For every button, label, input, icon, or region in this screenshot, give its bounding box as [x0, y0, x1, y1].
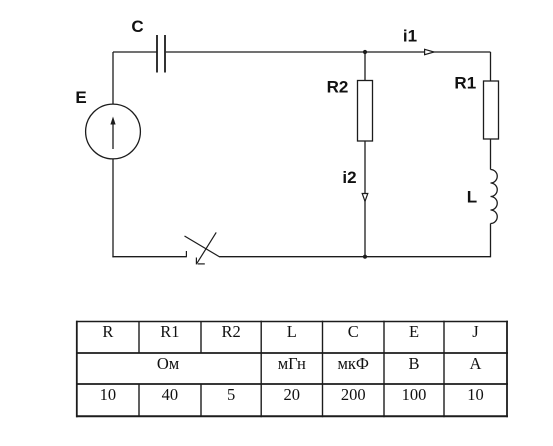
- label i1: [403, 26, 417, 45]
- table header row: R R1 R2 L C E J: [102, 322, 479, 341]
- label i2: [342, 168, 356, 187]
- svg-text:C: C: [348, 322, 359, 341]
- parameter table grid: [76, 321, 508, 418]
- label E: [75, 88, 86, 107]
- svg-text:L: L: [467, 188, 477, 207]
- svg-text:В: В: [408, 354, 419, 373]
- wire: bottom-left horizontal (corner to switch): [112, 256, 186, 258]
- wire: left vertical top (corner to source): [112, 52, 114, 105]
- label C: [131, 17, 143, 36]
- svg-text:L: L: [287, 322, 297, 341]
- label L: [467, 188, 477, 207]
- table values row: 10 40 5 20 200 100 10: [100, 385, 484, 404]
- svg-text:А: А: [470, 354, 482, 373]
- switch SW (closing key): [185, 232, 220, 264]
- svg-text:40: 40: [162, 385, 179, 404]
- node: bottom junction of R2 branch: [363, 255, 367, 259]
- node: top junction of R2 branch: [363, 50, 367, 54]
- table units row: Ом мГн мкФ В А: [157, 354, 482, 373]
- wire: right vertical between R1 and L: [490, 139, 492, 170]
- svg-text:E: E: [409, 322, 419, 341]
- svg-text:Ом: Ом: [157, 354, 180, 373]
- svg-text:200: 200: [341, 385, 366, 404]
- current arrow i2: [362, 194, 368, 202]
- wire: top horizontal (capacitor to top-right corner): [166, 51, 491, 53]
- svg-text:R1: R1: [160, 322, 179, 341]
- svg-text:R1: R1: [454, 74, 476, 93]
- resistor R2: [358, 81, 373, 142]
- svg-text:5: 5: [227, 385, 235, 404]
- svg-text:мкФ: мкФ: [337, 354, 369, 373]
- svg-text:R2: R2: [327, 78, 349, 97]
- wire: left vertical bottom (source to bottom-left corner): [112, 159, 114, 257]
- svg-text:i2: i2: [342, 168, 356, 187]
- label R2: [327, 78, 349, 97]
- wire: R2 branch lower: [364, 141, 366, 257]
- svg-text:10: 10: [100, 385, 117, 404]
- svg-text:10: 10: [467, 385, 484, 404]
- svg-text:20: 20: [284, 385, 301, 404]
- inductor L: [491, 170, 498, 224]
- svg-text:мГн: мГн: [278, 354, 306, 373]
- svg-text:J: J: [472, 322, 479, 341]
- wire: bottom horizontal (switch to bottom-right corner): [220, 256, 491, 258]
- wire: top-left horizontal (node to capacitor): [113, 51, 157, 53]
- wire: right vertical top (corner to R1): [490, 52, 492, 82]
- svg-text:R2: R2: [221, 322, 240, 341]
- current arrow i1: [425, 49, 434, 54]
- source E (current source circle with arrow): [86, 104, 141, 159]
- svg-text:R: R: [102, 322, 113, 341]
- svg-text:i1: i1: [403, 26, 417, 45]
- svg-text:E: E: [75, 88, 86, 107]
- label R1: [454, 74, 476, 93]
- wire: right vertical bottom (L to bottom-right corner): [490, 224, 492, 258]
- capacitor C: [157, 35, 165, 73]
- svg-text:100: 100: [402, 385, 427, 404]
- wire: R2 branch upper: [364, 52, 366, 81]
- svg-text:C: C: [131, 17, 143, 36]
- resistor R1: [484, 81, 499, 139]
